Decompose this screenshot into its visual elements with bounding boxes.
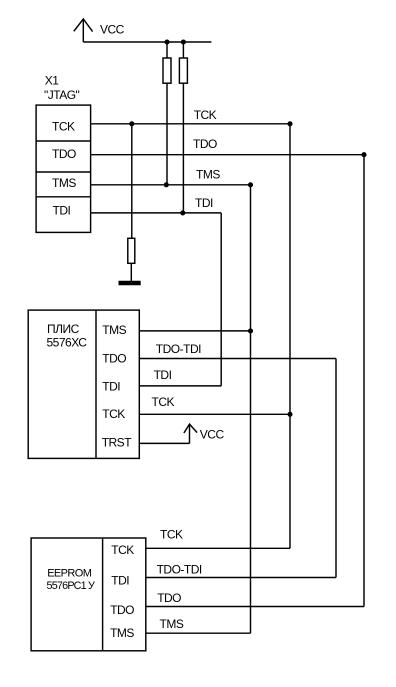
svg-text:5576ХС: 5576ХС bbox=[47, 336, 88, 350]
svg-text:TDI: TDI bbox=[111, 573, 129, 587]
svg-text:5576РС1 У: 5576РС1 У bbox=[47, 580, 96, 592]
svg-text:VCC: VCC bbox=[200, 427, 225, 441]
svg-text:ПЛИС: ПЛИС bbox=[47, 322, 80, 336]
svg-text:TCK: TCK bbox=[111, 543, 134, 557]
svg-text:TDO-TDI: TDO-TDI bbox=[157, 563, 202, 577]
svg-text:TDI: TDI bbox=[154, 368, 172, 382]
svg-text:TCK: TCK bbox=[160, 528, 183, 542]
svg-text:TMS: TMS bbox=[102, 323, 126, 337]
svg-text:"JTAG": "JTAG" bbox=[44, 88, 80, 102]
svg-text:TDO: TDO bbox=[52, 147, 76, 161]
svg-text:TCK: TCK bbox=[102, 407, 125, 421]
svg-text:TCK: TCK bbox=[194, 108, 217, 122]
svg-text:TDO: TDO bbox=[157, 591, 181, 605]
svg-text:TDI: TDI bbox=[53, 204, 71, 218]
svg-text:TDI: TDI bbox=[195, 196, 213, 210]
svg-text:TDO: TDO bbox=[102, 351, 126, 365]
svg-text:TMS: TMS bbox=[196, 167, 220, 181]
svg-text:TDO: TDO bbox=[110, 603, 134, 617]
svg-text:VCC: VCC bbox=[100, 23, 125, 37]
svg-text:TDO: TDO bbox=[193, 137, 217, 151]
svg-text:TDO-TDI: TDO-TDI bbox=[156, 342, 201, 356]
svg-text:TCK: TCK bbox=[52, 120, 75, 134]
svg-text:TMS: TMS bbox=[160, 617, 184, 631]
svg-text:TDI: TDI bbox=[102, 380, 120, 394]
svg-text:EEPROM: EEPROM bbox=[47, 567, 92, 579]
svg-text:TRST: TRST bbox=[102, 436, 133, 450]
svg-text:TCK: TCK bbox=[152, 395, 175, 409]
svg-text:TMS: TMS bbox=[52, 176, 76, 190]
svg-text:TMS: TMS bbox=[110, 626, 134, 640]
svg-text:X1: X1 bbox=[45, 73, 60, 87]
